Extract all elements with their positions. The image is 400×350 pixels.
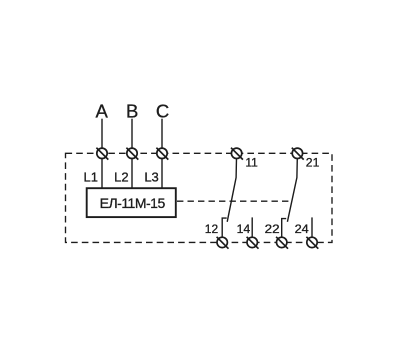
svg-text:L1: L1 (84, 170, 98, 185)
contact 2 moving lever from terminal 21 (287, 153, 297, 222)
contact 2 fixed contact wire to 22 with seat hook (282, 219, 287, 243)
terminal A (96, 148, 108, 160)
svg-text:L2: L2 (114, 170, 128, 185)
terminal B (126, 148, 138, 160)
terminal 22 (276, 237, 288, 249)
svg-text:L3: L3 (144, 170, 158, 185)
mechanical linkage dashed line (177, 200, 291, 202)
svg-text:ЕЛ-11М-15: ЕЛ-11М-15 (100, 195, 166, 211)
contact 1 fixed contact wire to 12 with seat hook (222, 218, 227, 242)
wire phase B (131, 119, 133, 189)
svg-text:12: 12 (205, 222, 219, 236)
contact 1 fixed contact wire to 14 (251, 217, 253, 242)
wire phase A (101, 119, 103, 189)
contact 1 moving lever from terminal 11 (227, 153, 236, 222)
terminal 24 (306, 237, 318, 249)
terminal 14 (247, 237, 259, 249)
svg-text:22: 22 (265, 222, 280, 236)
svg-text:A: A (96, 100, 109, 121)
svg-text:11: 11 (245, 156, 258, 170)
relay body box ЕЛ-11М-15 (87, 188, 176, 217)
terminal 11 (231, 148, 243, 160)
svg-text:24: 24 (295, 222, 310, 236)
terminal 12 (217, 237, 229, 249)
relay enclosure dashed boundary (66, 153, 333, 242)
terminal C (156, 148, 168, 160)
contact 2 fixed contact wire to 24 (311, 217, 313, 242)
svg-text:14: 14 (237, 222, 251, 236)
terminal 21 (292, 148, 304, 160)
svg-text:B: B (126, 100, 138, 121)
wire phase C (161, 119, 163, 189)
svg-text:21: 21 (306, 156, 320, 170)
svg-text:C: C (156, 100, 169, 121)
